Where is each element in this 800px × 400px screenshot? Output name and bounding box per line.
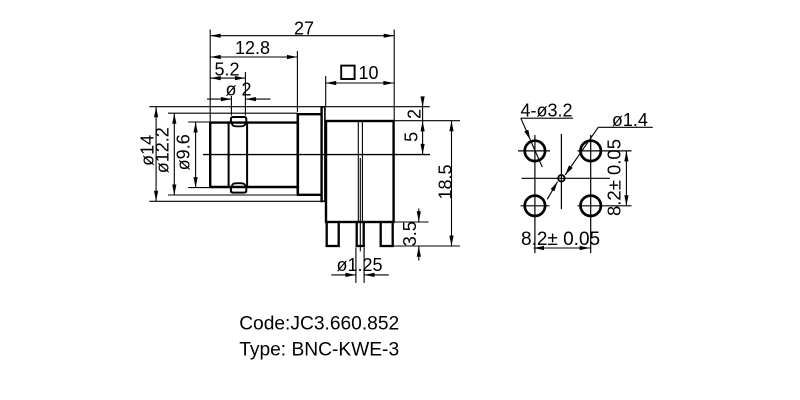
dimension 2 and 5 shared arrow line [422, 97, 424, 154]
extension line pin bottom right [394, 245, 460, 247]
rear square body (10 mm) [326, 121, 394, 222]
mounting hole upper-right (diam 3.2) [581, 141, 601, 161]
mounting hole upper-left (diam 3.2) [525, 141, 545, 161]
dimension 3.5 arrows [418, 209, 420, 223]
dimension square 10 [326, 82, 394, 84]
extension line body right [393, 30, 395, 121]
dimension diam 2 (bayonet pin) [207, 98, 231, 100]
upper-left hole horizontal crosshair [518, 150, 550, 152]
svg-text:ø1.4: ø1.4 [612, 110, 648, 130]
svg-text:27: 27 [294, 19, 314, 39]
svg-text:4-ø3.2: 4-ø3.2 [521, 101, 573, 121]
leader 4-diam3.2 [521, 117, 573, 119]
svg-text:18.5: 18.5 [436, 164, 456, 199]
svg-text:12.8: 12.8 [235, 38, 270, 58]
mounting hole lower-right (diam 3.2) [581, 196, 601, 216]
mounting hole lower-left (diam 3.2) [525, 196, 545, 216]
diam 12.2 extension lines [168, 112, 298, 114]
extension line barrel end [296, 51, 298, 112]
svg-text:8.2± 0.05: 8.2± 0.05 [521, 229, 600, 250]
dimension diam 12.2 arrow line [173, 113, 175, 195]
upper-right hole crosshair + extension [578, 150, 632, 152]
extension lines center pin diam [355, 248, 357, 284]
label square 10 [341, 66, 354, 79]
bayonet lug bottom [231, 186, 246, 192]
svg-text:5: 5 [402, 132, 422, 142]
center conductor hidden lines [357, 122, 359, 223]
PCB pin right [380, 222, 382, 247]
extension line square left [325, 76, 327, 106]
svg-text:5.2: 5.2 [214, 60, 239, 80]
extension line lug left [230, 96, 232, 116]
extension line lug right [244, 72, 246, 116]
dimension diam 14 arrow line [155, 107, 157, 202]
diam 14 extension lines [149, 106, 430, 108]
svg-text:Code:JC3.660.852: Code:JC3.660.852 [239, 314, 399, 335]
BNC barrel outline (diam 9.6 section) [209, 121, 211, 187]
extension line body top right [395, 120, 460, 122]
diam 9.6 extension lines [188, 121, 209, 123]
leader diam 1.4 [598, 126, 653, 128]
horizontal center axis [203, 154, 430, 156]
svg-text:ø1.25: ø1.25 [336, 255, 382, 275]
svg-text:ø9.6: ø9.6 [174, 134, 194, 170]
dimension diam 9.6 arrow line [195, 122, 197, 188]
svg-text:8.2± 0.05: 8.2± 0.05 [604, 139, 625, 216]
dimension 27 [210, 35, 394, 37]
dimension 12.8 [210, 56, 297, 58]
center hole (diam 1.4) [558, 175, 565, 182]
svg-text:ø12.2: ø12.2 [152, 127, 172, 173]
right column center line [590, 135, 592, 253]
extension line barrel face [209, 30, 211, 122]
extension line body bottom right [395, 221, 429, 223]
nut section (diam 12.2) [296, 113, 299, 195]
dimension 5.2 [210, 77, 245, 79]
pattern vertical center line [560, 134, 562, 209]
svg-text:Type: BNC-KWE-3: Type: BNC-KWE-3 [239, 339, 399, 360]
center contact pin [356, 222, 358, 247]
dimension 8.2 bottom [534, 247, 591, 249]
svg-text:3.5: 3.5 [400, 221, 420, 246]
pattern horizontal center line [522, 177, 611, 179]
dimension 8.2 right [625, 151, 627, 206]
center pin axis [359, 158, 361, 251]
left column center line [534, 135, 536, 253]
svg-text:2: 2 [405, 109, 425, 119]
bayonet slot edge lines [228, 123, 230, 187]
dimension 18.5 [451, 121, 453, 246]
lower-right hole crosshair + extension [578, 205, 632, 207]
flange disc (diam 14) [322, 107, 325, 201]
dimension diam 1.25 [331, 274, 356, 276]
svg-text:10: 10 [358, 63, 378, 83]
PCB pin left [326, 222, 328, 247]
lower-left hole horizontal crosshair [521, 205, 550, 207]
bayonet lug top (diam 2 pin) [231, 117, 246, 123]
svg-text:ø 2: ø 2 [225, 80, 251, 100]
